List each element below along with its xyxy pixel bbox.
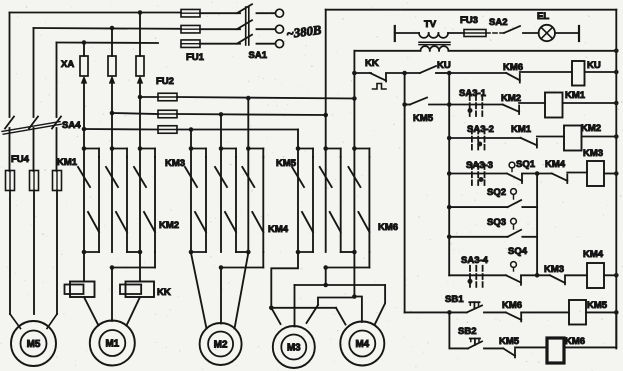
svg-text:KM2: KM2: [159, 220, 179, 231]
svg-text:FU2: FU2: [156, 76, 174, 87]
svg-text:M5: M5: [27, 339, 41, 350]
svg-text:SA2: SA2: [489, 17, 507, 28]
svg-text:FU3: FU3: [460, 15, 478, 26]
svg-text:KM3: KM3: [165, 158, 185, 169]
svg-text:KM1: KM1: [57, 157, 78, 168]
svg-text:KM2: KM2: [581, 123, 601, 134]
svg-text:TV: TV: [424, 19, 437, 30]
svg-text:KM6: KM6: [502, 300, 522, 311]
svg-text:M3: M3: [287, 343, 301, 354]
svg-text:SA3-1: SA3-1: [459, 88, 487, 99]
svg-text:SB2: SB2: [458, 326, 476, 337]
svg-text:KM2: KM2: [501, 93, 521, 104]
svg-text:KM5: KM5: [499, 336, 520, 347]
svg-text:SA1: SA1: [249, 50, 268, 61]
svg-text:SQ1: SQ1: [516, 159, 536, 170]
svg-text:M4: M4: [355, 339, 369, 350]
svg-text:KM4: KM4: [268, 224, 289, 235]
svg-text:KM4: KM4: [545, 159, 566, 170]
svg-text:SA3-2: SA3-2: [467, 124, 494, 135]
svg-text:KM5: KM5: [276, 158, 297, 169]
svg-text:SQ4: SQ4: [508, 246, 528, 257]
svg-text:XA: XA: [61, 59, 74, 70]
svg-text:KM1: KM1: [511, 124, 532, 135]
svg-text:KM6: KM6: [565, 336, 585, 347]
svg-text:KK: KK: [365, 58, 379, 69]
svg-text:KM3: KM3: [544, 264, 564, 275]
svg-text:EL: EL: [537, 11, 549, 22]
svg-text:KU: KU: [437, 60, 451, 71]
svg-text:KM5: KM5: [587, 300, 608, 311]
svg-text:SB1: SB1: [445, 294, 464, 305]
svg-text:SQ3: SQ3: [487, 217, 506, 228]
svg-text:KM1: KM1: [565, 90, 586, 101]
svg-text:SA3-4: SA3-4: [461, 255, 489, 266]
svg-text:M1: M1: [105, 339, 119, 350]
svg-text:KK: KK: [157, 287, 171, 298]
svg-text:FU4: FU4: [11, 154, 30, 165]
svg-text:KM5: KM5: [413, 113, 434, 124]
svg-text:SA3-3: SA3-3: [466, 160, 493, 171]
svg-text:FU1: FU1: [186, 52, 205, 63]
svg-text:SA4: SA4: [62, 120, 81, 131]
svg-text:KM6: KM6: [503, 62, 523, 73]
svg-text:KM6: KM6: [378, 222, 398, 233]
svg-text:SQ2: SQ2: [487, 187, 506, 198]
svg-text:KM3: KM3: [583, 148, 603, 159]
svg-text:KU: KU: [587, 60, 601, 71]
